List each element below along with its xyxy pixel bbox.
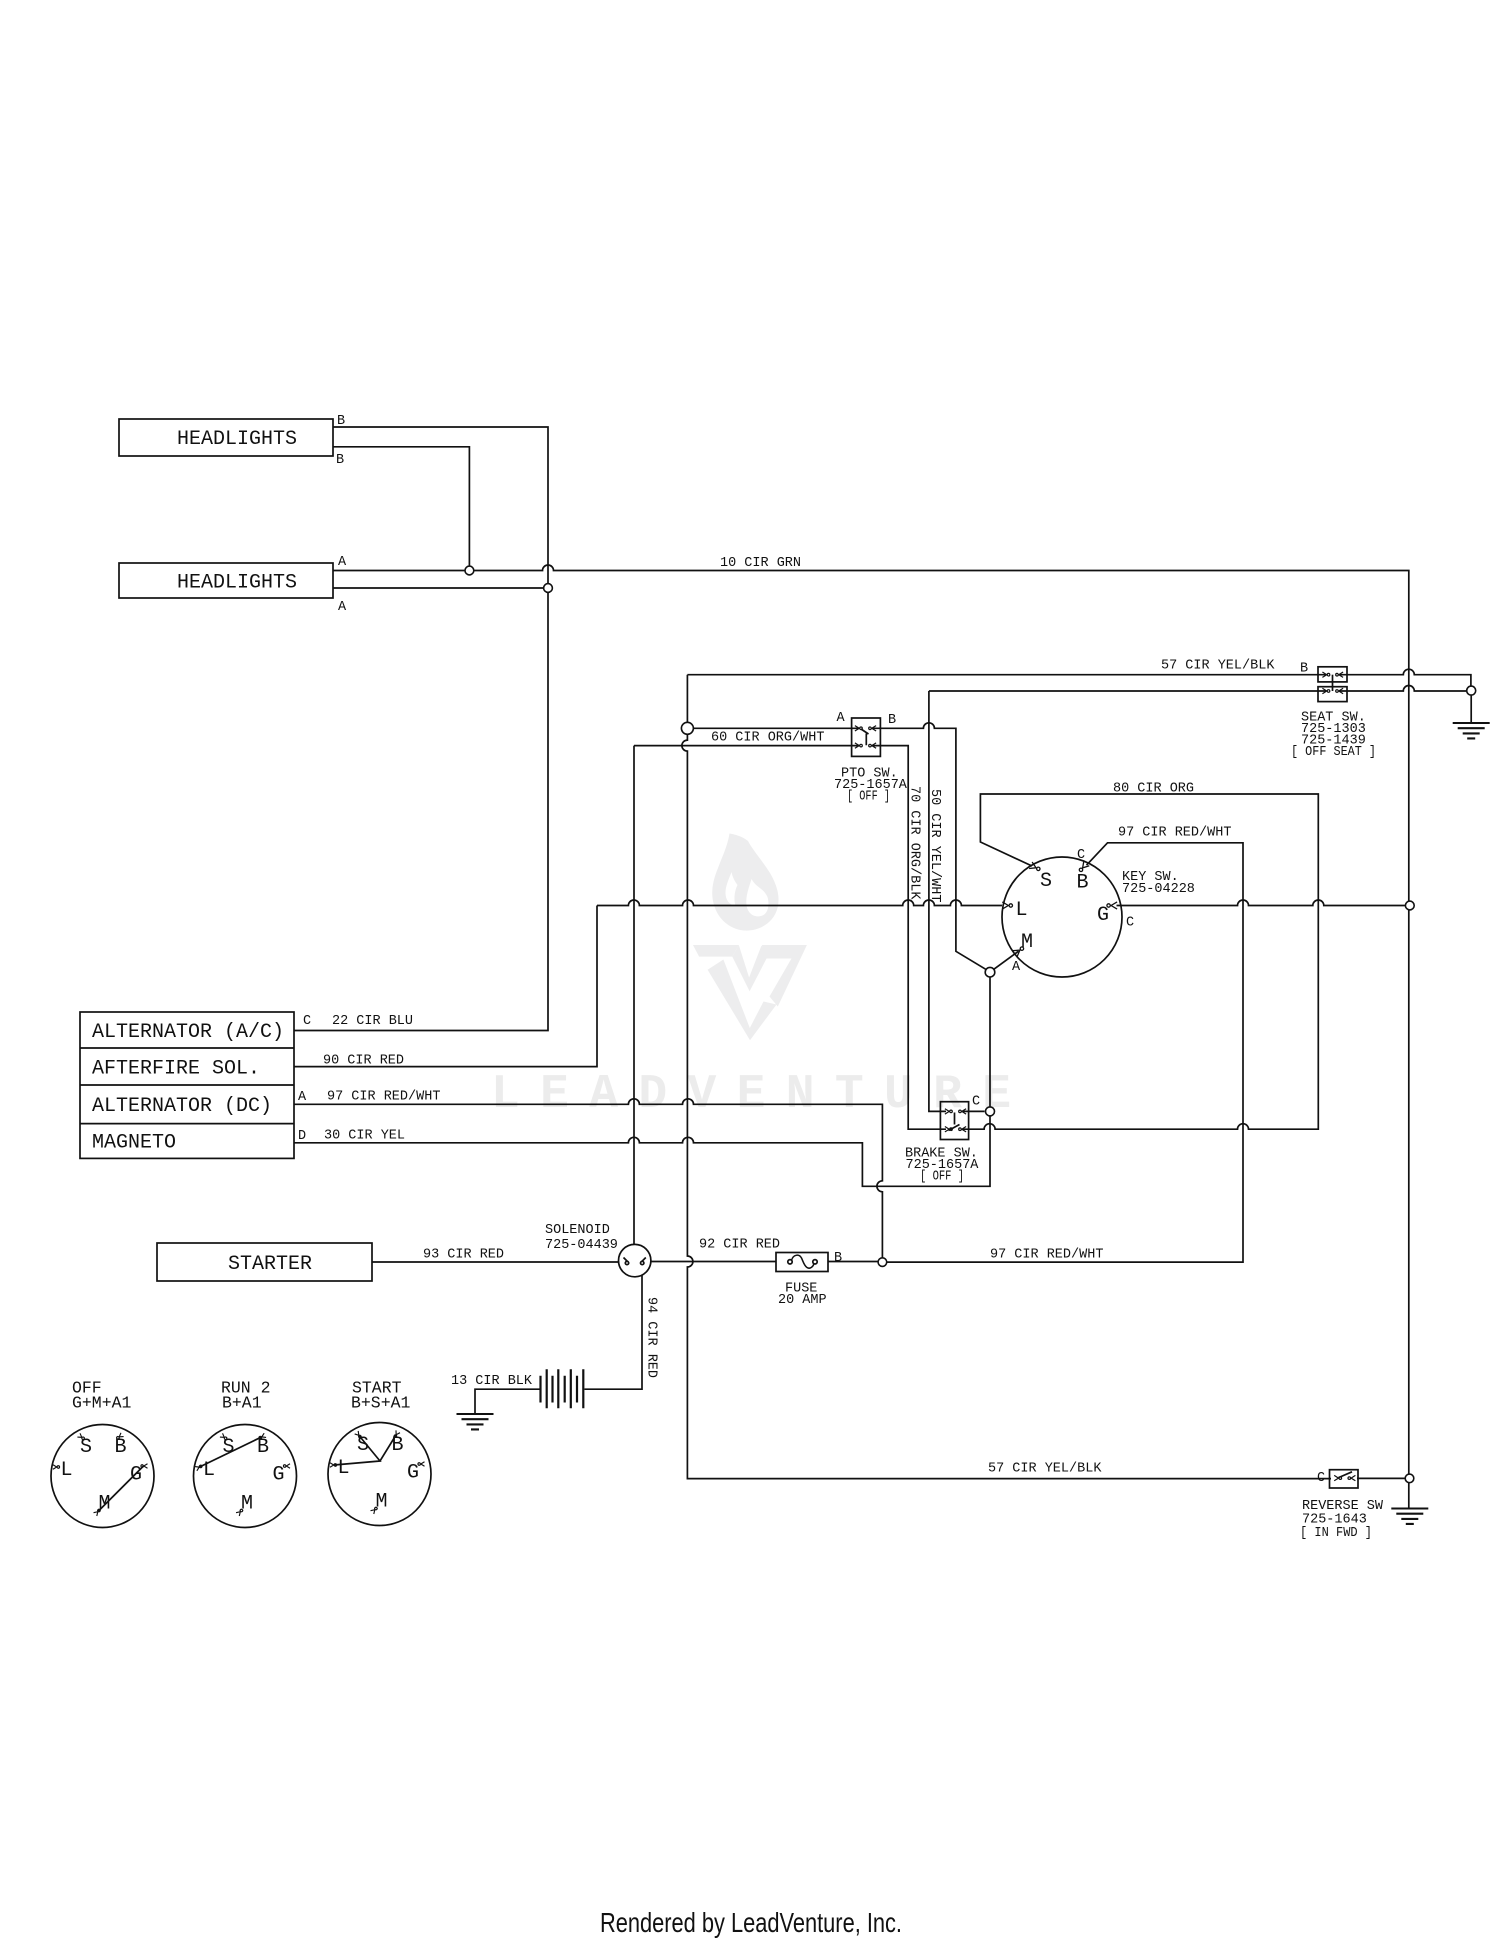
svg-text:M: M xyxy=(99,1493,111,1516)
wire 94 CIR RED: solenoid down to battery xyxy=(585,1275,643,1389)
PTO switch box xyxy=(852,718,881,756)
svg-text:92 CIR RED: 92 CIR RED xyxy=(699,1238,780,1253)
svg-text:M: M xyxy=(1021,931,1033,954)
brake switch internals xyxy=(949,1113,960,1131)
svg-text:B: B xyxy=(257,1436,269,1459)
wire 80 CIR ORG loop: brake bottom row right to key switch S xyxy=(963,794,1318,1129)
wire seat switch lower output to ground junction xyxy=(1339,686,1466,692)
svg-text:MAGNETO: MAGNETO xyxy=(92,1132,176,1155)
svg-text:30 CIR YEL: 30 CIR YEL xyxy=(324,1129,405,1144)
headlights box 2 xyxy=(119,563,333,598)
wire PTO B output: right, over 50-bus, down, diagonal to key A junction xyxy=(872,723,987,970)
wire 60 CIR ORG/WHT: junction to PTO switch A xyxy=(694,727,860,729)
svg-text:57 CIR YEL/BLK: 57 CIR YEL/BLK xyxy=(1161,659,1275,674)
key switch terminal arrows xyxy=(1002,902,1012,909)
wire 97 CIR RED/WHT top: key switch B diagonal and corner to fuse bus xyxy=(887,843,1243,1262)
svg-text:97 CIR RED/WHT: 97 CIR RED/WHT xyxy=(990,1248,1103,1263)
wire brake C junction down, left, up, 30 CIR YEL to magneto xyxy=(294,1116,990,1186)
svg-text:93 CIR RED: 93 CIR RED xyxy=(423,1248,504,1263)
svg-text:C: C xyxy=(972,1095,980,1110)
seat switch upper box xyxy=(1318,667,1347,682)
svg-text:94 CIR RED: 94 CIR RED xyxy=(644,1297,659,1378)
svg-text:[ OFF ]: [ OFF ] xyxy=(920,1170,964,1185)
svg-text:A: A xyxy=(837,711,846,726)
solenoid circle xyxy=(619,1244,651,1276)
svg-text:725-04439: 725-04439 xyxy=(545,1238,618,1253)
wire 13 CIR BLK: battery to ground xyxy=(475,1389,540,1413)
svg-text:SOLENOID: SOLENOID xyxy=(545,1223,610,1238)
svg-text:G+M+A1: G+M+A1 xyxy=(72,1394,132,1413)
svg-text:A: A xyxy=(338,555,347,570)
wire 57 vertical bus: seat corner down to bottom 57 CIR YEL/BLK and reverse switch xyxy=(682,675,1331,1479)
svg-text:B: B xyxy=(336,453,344,468)
ground (reverse switch) xyxy=(1391,1509,1428,1524)
svg-text:90 CIR RED: 90 CIR RED xyxy=(323,1054,404,1069)
junction node A (headlight wires) xyxy=(465,566,474,575)
wire 70 CIR ORG/BLK: PTO bottom-right down to brake switch bottom row xyxy=(872,746,946,1130)
svg-text:13 CIR BLK: 13 CIR BLK xyxy=(451,1374,533,1389)
wire brake switch top-right to C junction xyxy=(963,1110,985,1112)
svg-text:Rendered by LeadVenture, Inc.: Rendered by LeadVenture, Inc. xyxy=(600,1907,902,1938)
seat switch lower box xyxy=(1318,687,1347,702)
svg-text:M: M xyxy=(376,1491,388,1514)
wire headlight-A lower to bus junction xyxy=(333,587,548,589)
junction node fuse output xyxy=(878,1258,887,1267)
svg-text:L: L xyxy=(203,1459,215,1482)
svg-text:B: B xyxy=(337,414,345,429)
svg-text:B+S+A1: B+S+A1 xyxy=(351,1394,411,1413)
svg-text:G: G xyxy=(1097,904,1109,927)
svg-text:57 CIR YEL/BLK: 57 CIR YEL/BLK xyxy=(988,1462,1102,1477)
svg-text:B: B xyxy=(1300,662,1308,677)
svg-text:20 AMP: 20 AMP xyxy=(778,1293,827,1308)
svg-text:G: G xyxy=(130,1464,142,1487)
svg-text:C: C xyxy=(303,1014,311,1029)
svg-text:97 CIR RED/WHT: 97 CIR RED/WHT xyxy=(327,1090,440,1105)
reverse switch lever xyxy=(1339,1472,1353,1478)
PTO terminal arrows xyxy=(855,726,862,731)
fuse element xyxy=(792,1255,814,1268)
svg-text:L: L xyxy=(61,1459,73,1482)
svg-text:B: B xyxy=(392,1434,404,1457)
junction node seat ground xyxy=(1467,686,1476,695)
svg-text:B: B xyxy=(834,1251,842,1266)
svg-text:70 CIR ORG/BLK: 70 CIR ORG/BLK xyxy=(907,786,922,900)
key position circle RUN 2 xyxy=(194,1425,297,1528)
svg-text:B+A1: B+A1 xyxy=(222,1394,262,1413)
svg-text:M: M xyxy=(241,1493,253,1516)
seat switch link xyxy=(1332,675,1334,691)
key position circle OFF xyxy=(51,1425,154,1528)
svg-text:A: A xyxy=(338,600,347,615)
svg-text:[ OFF SEAT ]: [ OFF SEAT ] xyxy=(1291,745,1376,760)
svg-text:ALTERNATOR (A/C): ALTERNATOR (A/C) xyxy=(92,1021,284,1044)
junction node main line / right bus xyxy=(1405,901,1414,910)
MAIN-WIRES xyxy=(294,427,1471,1509)
junction node key A xyxy=(985,967,995,977)
reverse terminal arrows xyxy=(1334,1475,1341,1480)
svg-text:C: C xyxy=(1126,915,1134,930)
key switch U1 circle xyxy=(1002,857,1122,977)
svg-text:S: S xyxy=(357,1434,369,1457)
wire seat switch upper output to ground corner xyxy=(1339,669,1471,685)
svg-text:G: G xyxy=(273,1464,285,1487)
svg-text:10 CIR GRN: 10 CIR GRN xyxy=(720,556,801,571)
reverse switch box xyxy=(1330,1470,1359,1488)
svg-text:B: B xyxy=(888,713,896,728)
wire solenoid bus: corner down to solenoid top xyxy=(633,746,635,1245)
wire seat ground drop xyxy=(1470,695,1472,722)
ground (seat switch) xyxy=(1453,723,1490,738)
svg-text:ALTERNATOR (DC): ALTERNATOR (DC) xyxy=(92,1095,272,1118)
svg-text:STARTER: STARTER xyxy=(228,1253,312,1276)
battery plates xyxy=(541,1369,584,1408)
junction node (60 CIR ORG/WHT / 57 bus) xyxy=(681,722,693,734)
wire fuse to 97 junction xyxy=(828,1261,878,1263)
wire 97 CIR RED/WHT from alternator DC down to fuse junction xyxy=(294,1099,882,1258)
wire 57 CIR YEL/BLK upper: corner to seat switch row B xyxy=(687,674,1326,676)
svg-text:D: D xyxy=(298,1129,306,1144)
wire seat switch lower row from 50-bus corner xyxy=(929,690,1326,692)
junction node brake C xyxy=(986,1107,995,1116)
junction node reverse switch xyxy=(1405,1474,1414,1483)
svg-text:80 CIR ORG: 80 CIR ORG xyxy=(1113,782,1194,797)
svg-text:A: A xyxy=(1012,960,1021,975)
PTO switch internals xyxy=(861,729,869,745)
fuse box xyxy=(776,1253,828,1272)
alternator/afterfire/magneto block xyxy=(80,1012,294,1158)
svg-text:A: A xyxy=(298,1090,307,1105)
svg-text:C: C xyxy=(1317,1471,1325,1486)
wire main line left: corner to key switch L xyxy=(597,900,1002,906)
brake terminal arrows xyxy=(945,1109,952,1114)
svg-text:AFTERFIRE SOL.: AFTERFIRE SOL. xyxy=(92,1058,260,1081)
svg-text:HEADLIGHTS: HEADLIGHTS xyxy=(177,428,297,451)
svg-text:725-04228: 725-04228 xyxy=(1122,882,1195,897)
wire 92 CIR RED: solenoid to fuse xyxy=(651,1261,776,1263)
svg-text:S: S xyxy=(1040,870,1052,893)
svg-text:L: L xyxy=(338,1457,350,1480)
svg-text:S: S xyxy=(223,1436,235,1459)
svg-text:L: L xyxy=(1016,899,1028,922)
ground (battery) xyxy=(457,1414,494,1429)
starter box xyxy=(157,1243,372,1281)
wire 93 CIR RED: starter to solenoid xyxy=(372,1261,619,1263)
wire headlight-B upper to vertical bus, down to alternator A/C (22 CIR BLU) xyxy=(294,427,548,1031)
svg-text:50 CIR YEL/WHT: 50 CIR YEL/WHT xyxy=(927,789,942,902)
watermark flame logo xyxy=(712,834,778,931)
brake switch box xyxy=(940,1102,968,1140)
wire 50 CIR YEL/WHT: seat lower corner down to brake switch top-left xyxy=(929,691,946,1111)
key position circle START xyxy=(328,1423,431,1526)
svg-text:B: B xyxy=(1077,872,1089,895)
svg-text:97 CIR RED/WHT: 97 CIR RED/WHT xyxy=(1118,826,1231,841)
svg-text:[ OFF ]: [ OFF ] xyxy=(847,790,890,805)
solenoid terminals xyxy=(624,1258,646,1262)
wire 90 CIR RED: afterfire sol. to main line corner xyxy=(294,906,597,1067)
wire brake C junction up to key A junction xyxy=(989,977,991,1107)
wire headlight-B lower, down to A-row junction xyxy=(333,447,469,571)
svg-text:G: G xyxy=(407,1462,419,1485)
svg-text:22 CIR BLU: 22 CIR BLU xyxy=(332,1014,413,1029)
wire reverse switch to right bus junction xyxy=(1357,1477,1405,1479)
wire 10 CIR GRN: headlight-A to top-right corner, down right bus to reverse switch and ground xyxy=(333,565,1409,1509)
svg-text:S: S xyxy=(80,1436,92,1459)
svg-text:HEADLIGHTS: HEADLIGHTS xyxy=(177,572,297,595)
svg-text:B: B xyxy=(115,1436,127,1459)
wire 60 lower branch: solenoid bus corner to PTO bottom-left xyxy=(634,745,859,747)
wire main line right: key switch G to right bus junction xyxy=(1117,900,1406,906)
junction node (headlight lower A / bus) xyxy=(544,584,553,593)
headlights box 1 xyxy=(119,419,333,456)
svg-text:C: C xyxy=(1077,848,1085,863)
watermark V mark xyxy=(693,945,807,1040)
svg-text:[ IN FWD ]: [ IN FWD ] xyxy=(1300,1526,1372,1541)
wire key A junction diagonal to key M xyxy=(994,951,1019,969)
svg-text:60 CIR ORG/WHT: 60 CIR ORG/WHT xyxy=(711,731,824,746)
seat terminal arrows xyxy=(1322,672,1329,677)
